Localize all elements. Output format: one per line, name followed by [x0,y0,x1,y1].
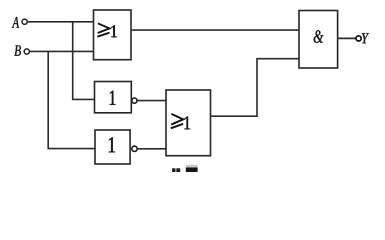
wire A to OR gate U1 top input [27,21,93,23]
wire B branch vertical drop to inverter U3 input [48,51,95,148]
wire AND gate U5 output to terminal Y [338,37,356,39]
output terminal Y [356,36,361,41]
wire OR gate U4 output riser to AND gate U5 bottom input [211,59,300,116]
AND gate U5 box [299,11,338,69]
OR gate U1 box [94,10,132,60]
input terminal B [24,49,29,54]
wire inverter U3 output to OR gate U4 bottom input [137,148,166,150]
wire OR gate U1 output to AND gate U5 top input [131,29,299,31]
inverter U2 output bubble [132,98,137,103]
inverter U2 label 1 [110,91,116,105]
inverter U3 box (bottom NOT gate) [95,130,130,164]
wire inverter U2 output to OR gate U4 top input [137,100,166,102]
inverter U3 label 1 [109,137,115,152]
OR gate U4 label >=1 [171,114,190,129]
caption remnant mark 2 (cut-off text at bottom) [176,168,180,172]
input terminal A [22,19,27,24]
input label A [12,17,19,28]
wire A branch vertical drop to inverter U2 input [73,22,95,100]
caption remnant mark 3 (cut-off text at bottom) [186,165,198,172]
wire B to OR gate U1 bottom input [30,50,94,52]
caption remnant mark 1 (cut-off text at bottom) [172,168,175,172]
OR gate U4 box [166,90,211,156]
OR gate U1 label >=1 [97,23,117,37]
inverter U3 output bubble [132,146,137,151]
output label Y [362,33,369,43]
AND gate U5 label & [314,30,324,43]
input label B [14,46,21,56]
inverter U2 box (top NOT gate) [95,82,132,113]
